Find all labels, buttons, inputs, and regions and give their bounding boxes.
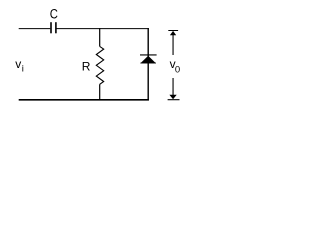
svg-text:0: 0 — [175, 64, 180, 75]
svg-text:C: C — [50, 6, 58, 21]
svg-text:R: R — [82, 59, 91, 73]
svg-text:i: i — [22, 64, 24, 75]
svg-text:v: v — [15, 57, 21, 71]
